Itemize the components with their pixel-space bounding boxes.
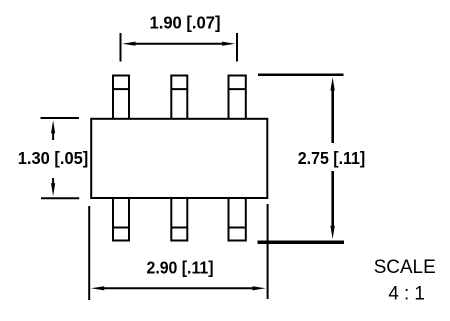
svg-text:2.75 [.11]: 2.75 [.11] xyxy=(298,148,366,168)
svg-text:SCALE: SCALE xyxy=(374,256,436,278)
svg-text:4 : 1: 4 : 1 xyxy=(388,283,425,305)
svg-text:1.30 [.05]: 1.30 [.05] xyxy=(18,148,89,168)
svg-text:1.90 [.07]: 1.90 [.07] xyxy=(150,13,221,33)
svg-text:2.90 [.11]: 2.90 [.11] xyxy=(147,258,214,278)
